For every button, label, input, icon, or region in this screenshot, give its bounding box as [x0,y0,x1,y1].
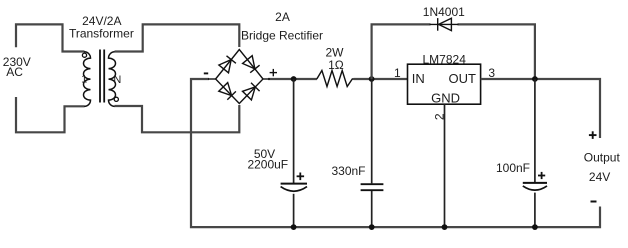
svg-text:1: 1 [394,66,401,80]
svg-text:AC: AC [6,65,23,79]
wire: diode 1N4001 right leg [458,24,535,79]
label 24V/2A Transformer [69,14,134,41]
node: rail junction 2200uF [291,224,297,230]
node: junction OUT / diode leg / 100nF [532,76,538,82]
output plus sign [589,131,597,139]
label 230V AC [3,55,31,79]
wire: resistor to regulator IN [354,78,408,80]
svg-text:N: N [113,74,121,86]
svg-text:1N4001: 1N4001 [423,5,465,19]
svg-text:2A: 2A [275,10,290,24]
wire: bridge plus to resistor [268,78,317,80]
output minus sign [591,201,597,203]
label 2W 1ohm [326,46,345,72]
wire: regulator GND pin to rail [444,104,446,227]
svg-text:Bridge Rectifier: Bridge Rectifier [241,28,323,42]
wire: diode 1N4001 left leg [372,24,431,79]
svg-text:IN: IN [412,71,425,86]
bridge minus sign [204,72,208,74]
node: rail junction 330nF [369,224,375,230]
bridge rectifier BR1 [216,50,263,104]
node: rail junction 100nF [532,224,538,230]
label 50V 2200uF [247,147,288,171]
wire: primary top (source to transformer pin) [16,24,85,51]
wire: regulator OUT to output terminal [481,79,600,138]
capacitor C2 330nF [361,79,384,227]
resistor R1 1ohm 2W [317,71,354,87]
capacitor C3 100nF [523,79,547,227]
svg-text:100nF: 100nF [496,161,530,175]
svg-text:1Ω: 1Ω [328,58,344,72]
wire: secondary top (transformer to bridge AC top) [115,24,240,51]
wire: bridge minus to ground rail and bottom rail [191,79,600,227]
regulator U1 LM7824 [408,64,481,105]
label Output 24V [584,151,621,185]
label 2A Bridge Rectifier [241,10,323,43]
capacitor C1 2200uF [281,79,307,227]
node: junction bridge plus / 2200uF [291,76,297,82]
svg-text:24V: 24V [589,170,610,184]
wire: primary bottom (transformer pin to source) [16,97,85,132]
svg-text:1: 1 [81,74,87,86]
svg-text:Transformer: Transformer [69,26,134,40]
node: rail junction GND pin [442,224,448,230]
svg-text:330nF: 330nF [331,164,365,178]
svg-text:LM7824: LM7824 [423,52,467,66]
transformer T1 [81,50,121,107]
diode D1 1N4001 [430,18,459,31]
node: junction resistor / diode leg / 330nF [369,76,375,82]
svg-text:GND: GND [431,90,460,105]
svg-text:2200uF: 2200uF [247,158,288,172]
svg-text:OUT: OUT [449,71,477,86]
bridge plus sign [270,69,277,76]
wire: secondary bottom (transformer to bridge AC bottom) [115,105,240,132]
svg-text:Output: Output [584,151,621,165]
